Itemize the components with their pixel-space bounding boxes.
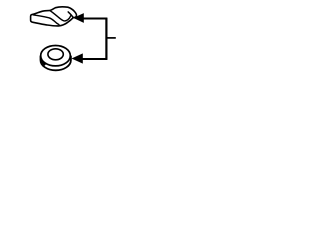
background bbox=[0, 0, 150, 81]
knob crease A (wing top-face edge) bbox=[34, 15, 60, 25]
washer hole bbox=[48, 49, 63, 60]
knob beak crease bbox=[68, 12, 73, 18]
knob crease B (head/arm boundary) bbox=[50, 11, 71, 21]
top arrowhead bbox=[73, 13, 84, 23]
bottom leader line bbox=[83, 58, 108, 60]
knob body outline bbox=[31, 7, 77, 26]
washer outer ellipse (top face) bbox=[41, 46, 71, 66]
washer left rim pinch shading bbox=[41, 57, 45, 65]
washer side wall bbox=[41, 56, 71, 71]
bracket stub bbox=[106, 37, 116, 39]
bottom arrowhead bbox=[72, 53, 83, 63]
bracket vertical line bbox=[105, 18, 107, 60]
top leader line bbox=[83, 18, 107, 20]
